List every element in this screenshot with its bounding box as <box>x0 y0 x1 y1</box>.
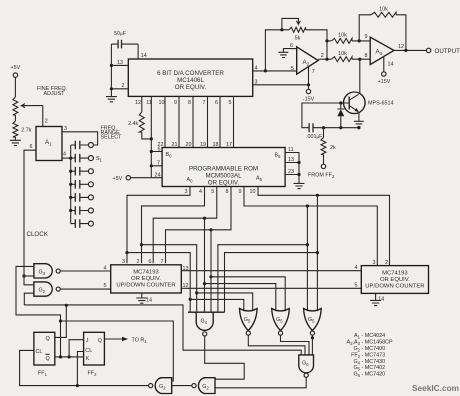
svg-text:7: 7 <box>203 100 206 106</box>
svg-text:- MC7400: - MC7400 <box>362 346 386 352</box>
svg-text:- MC7473: - MC7473 <box>362 352 386 358</box>
junction 5k wiper <box>280 28 283 31</box>
svg-text:5k: 5k <box>295 36 301 42</box>
ground (A2 pin6) <box>278 52 288 57</box>
+5V supply terminal (fine freq) <box>11 65 21 97</box>
junction 2.4k/pin11 <box>150 137 153 140</box>
svg-text:9: 9 <box>239 189 242 195</box>
svg-text:+5V: +5V <box>113 176 123 182</box>
programmable ROM MCM5003AL <box>162 148 285 187</box>
svg-text:5: 5 <box>229 100 232 106</box>
svg-text:A2: A2 <box>303 59 310 67</box>
ROM top pin labels <box>158 142 233 148</box>
svg-text:7: 7 <box>161 259 164 265</box>
svg-text:TO R1: TO R1 <box>132 337 148 344</box>
wire 5k to A2 output node <box>306 30 327 59</box>
wire A1 pin4 to capacitor bus <box>62 157 71 159</box>
svg-text:FROM FF2: FROM FF2 <box>308 173 335 180</box>
junction ROM pin13 gnd <box>297 161 300 164</box>
resistor 2.4k <box>128 96 151 138</box>
junction G5-1 right branch <box>195 291 198 294</box>
ground (ROM right) <box>294 183 305 188</box>
wire A2 pin6 to ground <box>283 49 296 52</box>
junction cap bus row 5 <box>69 196 72 199</box>
wire G2c output to FF clocks <box>20 350 149 385</box>
svg-text:5: 5 <box>104 283 107 289</box>
svg-text:3: 3 <box>122 259 125 265</box>
wire emitter to ground <box>358 112 360 121</box>
wire A3 output <box>394 49 427 51</box>
D/A bottom pin labels <box>135 100 232 106</box>
wire G2b to G2c <box>172 385 192 387</box>
junction cap line/gnd <box>357 126 360 129</box>
junction Qbar/J riser <box>68 355 71 358</box>
svg-text:OUTPUT: OUTPUT <box>435 48 460 55</box>
svg-text:MC74193: MC74193 <box>133 270 159 276</box>
wire feedback riser to 5k <box>265 30 289 71</box>
svg-text:6: 6 <box>158 147 161 153</box>
wire base <box>302 103 349 128</box>
up/down counter MC74193 (right) <box>355 260 429 293</box>
svg-text:4: 4 <box>355 265 358 271</box>
range capacitor C7 with switch contact <box>71 219 94 228</box>
wire Ha FF1 Q to G6 <box>24 305 301 355</box>
svg-text:G6: G6 <box>302 361 309 368</box>
svg-text:SELECT: SELECT <box>101 135 123 141</box>
junction clock/G3 input <box>22 274 25 277</box>
svg-text:50μF: 50μF <box>114 31 127 37</box>
svg-text:OR EQUIV.: OR EQUIV. <box>380 277 410 283</box>
svg-text:G5: G5 <box>276 317 283 324</box>
wire to G5-1 left input <box>190 299 244 311</box>
range capacitor C1 with switch contact <box>71 141 94 150</box>
flip-flop FF2 <box>84 332 105 377</box>
wire A3 pin14 to +15V <box>383 57 385 72</box>
svg-text:17: 17 <box>226 142 232 148</box>
svg-text:G6: G6 <box>353 372 360 379</box>
op-amp A2 <box>290 43 324 75</box>
resistor 2.7k <box>13 115 32 140</box>
svg-text:G2: G2 <box>202 384 209 391</box>
+5V terminal (ROM pin 24) <box>113 176 163 183</box>
junction FF2 clock riser <box>76 384 79 387</box>
wire ROM4 branch to G4 input <box>142 245 197 313</box>
junction A2 out/5k <box>325 58 328 61</box>
D/A right pin labels 4,3 <box>255 66 258 86</box>
svg-text:PROGRAMMABLE ROM: PROGRAMMABLE ROM <box>189 166 258 173</box>
wire G5a output to G6 <box>248 335 305 355</box>
wire counter L pin12 to counter R pin5 <box>181 287 361 289</box>
svg-text:6: 6 <box>215 100 218 106</box>
svg-text:.001μF: .001μF <box>306 134 323 140</box>
svg-text:A0: A0 <box>187 177 194 184</box>
junction ROM8 branch <box>209 228 212 231</box>
svg-text:10k: 10k <box>338 33 347 39</box>
diode <box>337 103 344 128</box>
NAND gate G2c (left) <box>149 378 172 394</box>
wire G4 output to G2b top input <box>205 336 245 379</box>
svg-text:2: 2 <box>45 119 48 125</box>
wire D/A pin3 to A2 pin7 and -15V <box>253 67 309 89</box>
svg-text:Q: Q <box>46 356 50 362</box>
svg-text:B5: B5 <box>275 153 282 160</box>
wire Hb Qbar to G2b gate <box>61 321 174 381</box>
svg-text:14: 14 <box>388 62 394 68</box>
svg-text:8: 8 <box>226 189 229 195</box>
transistor MPS-6514 <box>344 92 394 114</box>
NAND gate G2b (right) <box>192 378 215 394</box>
svg-text:- MC7430: - MC7430 <box>362 359 386 365</box>
svg-text:2: 2 <box>137 259 140 265</box>
wire to G5-2 right input <box>211 277 285 311</box>
svg-text:K: K <box>86 356 90 362</box>
junction ROM10/G4 link <box>316 251 319 254</box>
svg-text:5: 5 <box>211 189 214 195</box>
svg-text:12: 12 <box>183 283 189 289</box>
potentiometer fine freq adjust <box>13 86 67 127</box>
ROM left pin labels 6,7,24 <box>155 147 161 179</box>
junction base/diode <box>339 101 342 104</box>
wire D/A to ROM at x=179 <box>178 96 180 147</box>
svg-text:+15V: +15V <box>378 79 391 85</box>
junction D/A pin13 <box>110 64 113 67</box>
wire link to G4 input 5 <box>218 245 308 313</box>
svg-text:Q: Q <box>46 336 50 342</box>
svg-text:9: 9 <box>365 34 368 40</box>
wire FF1 Qbar to FF2 K <box>55 356 84 358</box>
NAND gate G4 (8-input) <box>188 312 225 336</box>
wire ROM8 branch to G4 input <box>210 230 212 312</box>
wire link to G4 input 6 <box>225 253 318 313</box>
ROM right pins 11,13,23 to ground <box>285 147 299 183</box>
junction ROM5 branch <box>203 217 206 220</box>
wire D/A pin4 to A2 pin5 <box>253 70 297 72</box>
op-amp A3 <box>365 34 405 68</box>
junction G5c/G6 <box>311 336 314 339</box>
svg-text:OR EQUIV.: OR EQUIV. <box>175 84 207 91</box>
junction A2 out/10k riser <box>325 39 328 42</box>
svg-text:10: 10 <box>159 100 165 106</box>
wire ROM10 branch to G5-3 right <box>316 195 318 311</box>
wire ROM pin9 to counter R pin3 <box>244 187 377 266</box>
svg-text:14: 14 <box>141 53 147 59</box>
junction G5-2 left branch <box>203 282 206 285</box>
junction cap bus row 4 <box>69 183 72 186</box>
svg-text:10: 10 <box>250 189 256 195</box>
NAND gate G6 (4-input) <box>299 355 314 377</box>
junction cap bus row 2 <box>69 157 72 160</box>
svg-text:5: 5 <box>291 66 294 72</box>
OUTPUT terminal <box>426 48 460 55</box>
svg-text:9: 9 <box>174 100 177 106</box>
wire ROM pin3 to counter L pin3 <box>127 187 190 264</box>
svg-text:G4: G4 <box>201 319 208 326</box>
wire feedback riser A3 <box>359 15 371 41</box>
svg-text:8: 8 <box>188 100 191 106</box>
svg-text:MCM5003AL: MCM5003AL <box>205 173 242 180</box>
svg-text:OR EQUIV.: OR EQUIV. <box>208 180 240 187</box>
svg-text:ADJUST: ADJUST <box>44 91 66 97</box>
ground (D/A) <box>106 97 117 102</box>
wire FF2 Q to R with arrow <box>104 337 147 344</box>
junction D/A pin2 <box>110 87 113 90</box>
wire clock to G2a upper input <box>24 276 34 285</box>
svg-text:- MC7420: - MC7420 <box>362 372 386 378</box>
wire G3 output to counter pin4 <box>60 270 110 272</box>
junction ROM3 branch <box>125 251 128 254</box>
svg-text:CL: CL <box>36 349 43 355</box>
junction G5-1 left branch <box>189 298 192 301</box>
junction ROM pin6 <box>150 150 153 153</box>
svg-text:+5V: +5V <box>11 65 21 71</box>
svg-text:G5: G5 <box>308 317 315 324</box>
svg-text:24: 24 <box>155 172 161 178</box>
ground (counter R pin14) <box>376 293 385 302</box>
svg-text:3: 3 <box>373 260 376 266</box>
svg-text:10k: 10k <box>338 51 347 57</box>
wire G2a lower input from Ha <box>24 293 34 305</box>
wire J riser <box>69 340 84 357</box>
svg-text:13: 13 <box>183 266 189 272</box>
wire FF2 clock riser <box>77 352 83 386</box>
range capacitor C4 with switch contact <box>71 180 94 189</box>
svg-text:B0: B0 <box>166 152 173 159</box>
svg-text:7: 7 <box>157 160 160 166</box>
svg-text:13: 13 <box>288 157 294 163</box>
svg-text:MC74193: MC74193 <box>382 270 408 276</box>
svg-text:S1: S1 <box>96 156 103 163</box>
ROM bottom pin labels <box>185 189 256 195</box>
svg-text:6: 6 <box>149 259 152 265</box>
svg-text:6: 6 <box>30 144 33 150</box>
NOR gate G5c <box>304 309 322 336</box>
svg-text:2: 2 <box>385 260 388 266</box>
svg-text:UP/DOWN COUNTER: UP/DOWN COUNTER <box>116 283 175 289</box>
range capacitor C2 with switch contact <box>71 154 94 163</box>
NOR gate G5a <box>240 309 258 336</box>
svg-text:8: 8 <box>365 53 368 59</box>
wire riser to pin9 line <box>327 40 332 42</box>
wire ROM pin10 to counter R pin2 <box>258 187 390 266</box>
-15V terminal <box>303 89 315 102</box>
svg-text:2.4k: 2.4k <box>128 121 138 127</box>
junction ROM pin23 gnd <box>297 173 300 176</box>
junction ROM9 branch <box>306 204 309 207</box>
wire FF1 Q riser <box>55 305 67 337</box>
NOR gate G5b <box>272 309 290 336</box>
svg-text:12: 12 <box>135 100 141 106</box>
junction cap bus row 6 <box>69 209 72 212</box>
wire A1 pin3 to range select <box>62 132 98 145</box>
wire D/A to ROM at x=165 <box>164 96 166 147</box>
svg-text:FF1: FF1 <box>38 371 48 378</box>
wire ROM pin8 to counter L pin7 <box>166 187 232 264</box>
svg-text:G2: G2 <box>159 384 166 391</box>
wire A1 pin6 clock <box>24 150 36 276</box>
svg-text:CLOCK: CLOCK <box>27 231 49 238</box>
svg-text:- MC1458CP: - MC1458CP <box>362 339 394 345</box>
svg-text:FF2: FF2 <box>88 371 98 378</box>
wire G2a output to counter pin5 <box>60 288 110 290</box>
svg-text:2: 2 <box>321 53 324 59</box>
svg-text:G3: G3 <box>39 270 46 277</box>
wire ROM pin5 to counter L pin6 <box>153 187 217 264</box>
capacitor 50uF <box>111 31 138 48</box>
resistor 10k (to A3 pin9) <box>332 33 371 44</box>
junction ROM pin7 <box>150 164 153 167</box>
wire D/A pin11 to ROM pins 6,7 and +5V <box>151 96 162 177</box>
resistor 2k <box>321 128 336 165</box>
ground (counter L pin14) <box>142 293 152 304</box>
up/down counter MC74193 (left) <box>104 259 189 293</box>
svg-text:OR EQUIV.: OR EQUIV. <box>131 276 161 282</box>
FROM FF2 terminal <box>308 164 335 179</box>
legend device list <box>347 333 393 378</box>
wire D/A to ROM at x=207.5 <box>207 96 209 147</box>
junction ROM4 branch <box>140 243 143 246</box>
ground (emitter) <box>354 121 364 126</box>
junction pin8/collector <box>358 58 361 61</box>
svg-text:2: 2 <box>122 83 125 89</box>
svg-text:A1: A1 <box>45 139 52 147</box>
wire ROM pin4 to counter L pin2 <box>142 187 205 264</box>
6 bit D/A converter MC1406L <box>128 59 252 96</box>
wire 50uF to D/A pin14 <box>137 44 139 59</box>
+15V terminal <box>378 72 391 85</box>
junction ROM9/G4 link <box>306 243 309 246</box>
flip-flop FF1 <box>34 332 55 377</box>
svg-text:13: 13 <box>117 60 123 66</box>
junction cap bus row 3 <box>69 170 72 173</box>
svg-text:4: 4 <box>63 152 66 158</box>
wire A2 output <box>318 58 331 60</box>
junction ROM10 branch <box>316 194 319 197</box>
svg-text:2.7k: 2.7k <box>21 127 31 133</box>
range capacitor C3 with switch contact <box>71 167 94 176</box>
svg-text:-15V: -15V <box>303 96 315 102</box>
wire D/A to ROM at x=220 <box>219 96 221 147</box>
svg-text:- MC4024: - MC4024 <box>362 333 386 339</box>
wire FF1 Qbar to G3 upper input <box>16 266 61 357</box>
junction Qbar/Hb <box>59 319 62 322</box>
wire collector riser <box>359 59 361 93</box>
svg-text:18: 18 <box>213 142 219 148</box>
wire G5c output to G6 <box>311 335 313 355</box>
junction pin9/feedback <box>358 39 361 42</box>
wire G5b output to G6 <box>281 335 310 355</box>
svg-text:Q: Q <box>98 338 102 344</box>
svg-text:20: 20 <box>186 142 192 148</box>
svg-text:12: 12 <box>398 44 404 50</box>
svg-text:6: 6 <box>290 43 293 49</box>
wire to G5-1 right input <box>197 293 253 311</box>
junction pin4/feedback riser <box>264 69 267 72</box>
resistor 10k (A2 to A3 pin8) <box>332 51 371 62</box>
junction output/feedback <box>404 49 407 52</box>
NAND gate G3 <box>34 264 60 278</box>
range capacitor C6 with switch contact <box>71 206 94 215</box>
svg-text:10k: 10k <box>379 7 388 13</box>
wire clock to G3 lower input <box>24 275 34 277</box>
oscillator A1 <box>30 119 68 161</box>
resistor 10k feedback A3 <box>371 7 396 18</box>
svg-text:2k: 2k <box>330 145 336 151</box>
svg-text:7: 7 <box>312 69 315 75</box>
svg-text:19: 19 <box>200 142 206 148</box>
svg-text:6 BIT D/A CONVERTER: 6 BIT D/A CONVERTER <box>157 70 224 77</box>
svg-text:5: 5 <box>355 282 358 288</box>
wire G6 output to G2b bottom input <box>215 377 306 388</box>
junction Ha/FF1 Q riser <box>65 304 68 307</box>
range capacitor C5 with switch contact <box>71 193 94 202</box>
capacitor .001uF <box>306 123 359 140</box>
wire counter L pin13 to counter R pin4 <box>181 270 361 272</box>
svg-text:MPS-6514: MPS-6514 <box>368 101 393 107</box>
wire feedback to output <box>396 15 406 51</box>
wire D/A to ROM at x=193 <box>192 96 194 147</box>
svg-text:G2: G2 <box>39 288 46 295</box>
svg-text:SeekIC.com: SeekIC.com <box>412 383 459 393</box>
ground (2.7k) <box>10 140 21 145</box>
wire D/A left: pins 13,2 and ground <box>111 44 128 96</box>
svg-text:4: 4 <box>199 189 202 195</box>
capacitor bank bus <box>70 145 72 224</box>
svg-text:G5: G5 <box>244 317 251 324</box>
junction diode/cap line <box>339 126 342 129</box>
svg-text:21: 21 <box>172 142 178 148</box>
svg-text:A3: A3 <box>376 49 383 57</box>
wire to G5-2 left input <box>205 284 276 312</box>
wire ROM3 branch to G4 input <box>127 253 190 313</box>
junction Qbar line <box>59 355 62 358</box>
svg-text:MC1406L: MC1406L <box>177 77 204 84</box>
svg-text:J: J <box>86 338 89 344</box>
potentiometer 5k <box>282 18 306 41</box>
junction pin7/-15V <box>307 83 310 86</box>
svg-text:3: 3 <box>64 126 67 132</box>
freq range select label <box>101 126 123 141</box>
svg-text:CL: CL <box>85 348 92 354</box>
svg-text:11: 11 <box>288 147 294 153</box>
svg-text:3: 3 <box>185 189 188 195</box>
wire ROM5 branch to G4 input <box>204 218 206 312</box>
svg-text:- MC7402: - MC7402 <box>362 365 386 371</box>
wire D/A to ROM at x=233.5 <box>233 96 235 147</box>
wire ROM9 branch to G5-3 left <box>306 206 308 311</box>
svg-text:14: 14 <box>378 297 384 303</box>
junction G5-2 right branch <box>209 275 212 278</box>
svg-text:23: 23 <box>288 169 294 175</box>
NAND gate G2a <box>34 282 60 296</box>
svg-text:A5: A5 <box>256 176 263 183</box>
junction cap/2k <box>322 126 325 129</box>
svg-text:UP/DOWN COUNTER: UP/DOWN COUNTER <box>365 283 424 289</box>
